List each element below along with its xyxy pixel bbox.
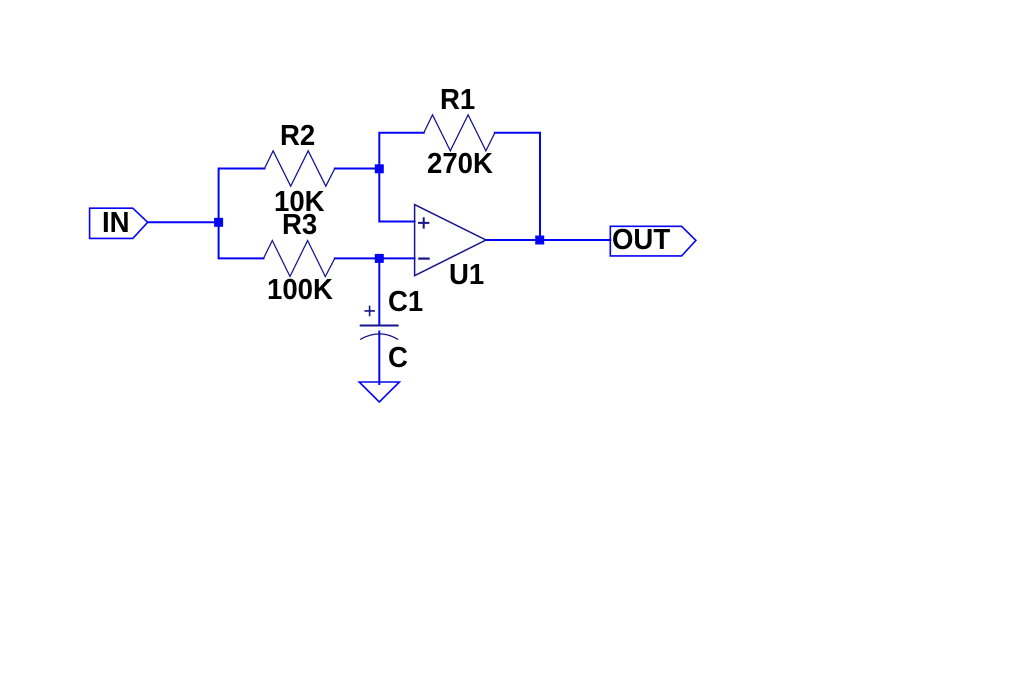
node B junction square xyxy=(375,164,384,173)
label OUT xyxy=(612,224,670,257)
port flag IN xyxy=(90,208,148,238)
label C1 xyxy=(388,286,423,319)
wire node A up to R2 level xyxy=(219,169,265,223)
resistor R2 zigzag xyxy=(265,151,335,186)
wire R1 right down to node C xyxy=(495,133,540,240)
wire capacitor bottom to ground xyxy=(378,332,380,385)
node D junction square xyxy=(375,254,384,263)
wire R2 right to node B xyxy=(335,168,380,170)
label 270K xyxy=(427,148,493,181)
wire R3 right through node D to op-amp minus input xyxy=(335,257,415,259)
wire node B up to R1 left xyxy=(379,133,424,169)
wire IN to node A xyxy=(148,221,215,223)
op-amp U1 triangle xyxy=(415,205,486,276)
capacitor C1 top plate xyxy=(361,325,398,327)
capacitor C1 polarity plus xyxy=(365,306,374,315)
wire op-amp output to node C and OUT xyxy=(486,239,610,241)
ground symbol xyxy=(359,382,399,402)
port flag OUT xyxy=(610,226,696,256)
node A junction square xyxy=(214,218,223,227)
wire node D down to capacitor C1 xyxy=(378,258,380,324)
op-amp plus input symbol xyxy=(419,218,428,227)
op-amp minus input symbol xyxy=(419,258,428,260)
label U1 xyxy=(449,259,484,292)
wire node A down to R3 left xyxy=(219,222,264,258)
label R3 xyxy=(282,209,317,242)
label R2 xyxy=(280,120,315,153)
capacitor C1 bottom curved plate xyxy=(361,334,398,339)
resistor R3 zigzag xyxy=(264,241,335,277)
label 100K xyxy=(267,274,333,307)
label R1 xyxy=(440,84,475,117)
label C xyxy=(388,342,408,375)
resistor R1 zigzag xyxy=(424,115,495,151)
label IN xyxy=(102,207,130,240)
wire node B down to op-amp plus input xyxy=(379,169,414,222)
node C junction square xyxy=(535,236,544,245)
label 10K xyxy=(274,186,325,219)
